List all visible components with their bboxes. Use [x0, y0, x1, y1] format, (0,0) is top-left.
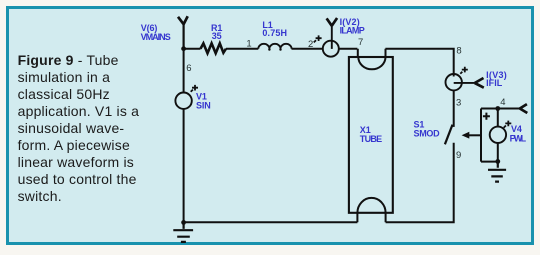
svg-text:SMOD: SMOD: [414, 128, 441, 138]
svg-text:8: 8: [456, 46, 461, 57]
svg-text:35: 35: [212, 31, 222, 41]
svg-text:IFIL: IFIL: [486, 78, 503, 88]
svg-text:3: 3: [456, 98, 461, 109]
svg-text:TUBE: TUBE: [360, 134, 382, 144]
svg-text:9: 9: [456, 150, 461, 161]
svg-text:ILAMP: ILAMP: [340, 26, 365, 36]
svg-text:0.75H: 0.75H: [262, 28, 287, 38]
svg-text:VMAINS: VMAINS: [141, 32, 171, 42]
svg-text:4: 4: [500, 97, 505, 108]
svg-text:7: 7: [358, 37, 363, 48]
svg-text:PWL: PWL: [510, 133, 527, 143]
svg-text:6: 6: [186, 63, 191, 74]
svg-text:SIN: SIN: [196, 100, 211, 110]
svg-text:1: 1: [246, 39, 251, 50]
svg-text:2: 2: [308, 39, 313, 50]
